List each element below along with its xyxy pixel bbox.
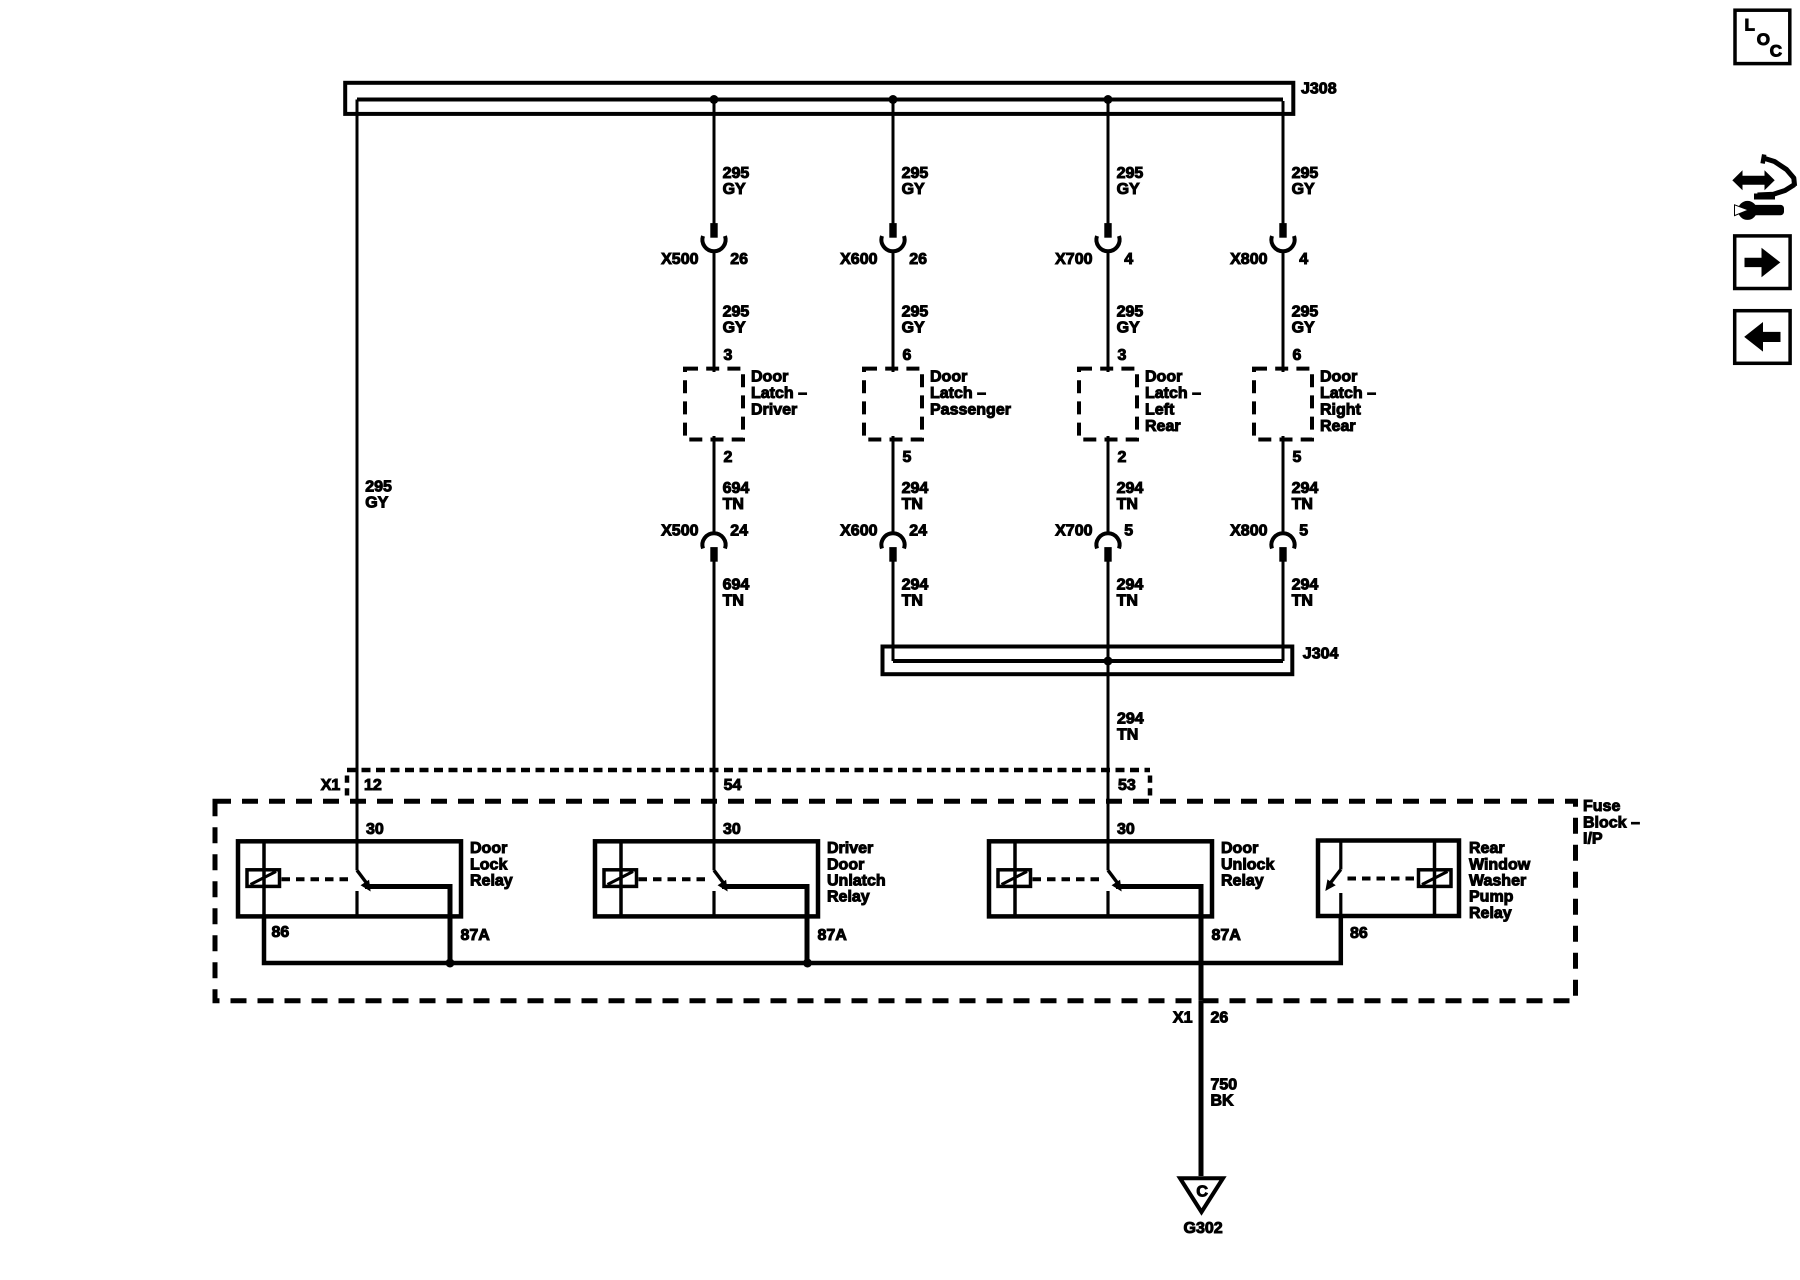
- connector X1 dotted bracket: [347, 770, 1150, 798]
- pin 26 label (upper connector): [909, 251, 927, 268]
- pin 3 label (door latch top): [1118, 347, 1127, 364]
- pin 86 label (relay 1): [272, 924, 290, 941]
- relay coil (relay 4): [1419, 841, 1452, 917]
- door latch component box (Door Latch - Passenger): [864, 369, 922, 440]
- svg-text:694: 694: [723, 577, 750, 594]
- label J304: [1303, 645, 1339, 662]
- svg-text:295: 295: [723, 304, 750, 321]
- door latch component box (Door Latch - Right Rear): [1254, 369, 1312, 440]
- pin 87A label (relay 3): [1212, 927, 1242, 944]
- relay coil (relay 3): [998, 841, 1031, 916]
- svg-text:BK: BK: [1211, 1092, 1235, 1109]
- label 295 GY (X500 lower): [723, 304, 750, 337]
- svg-text:GY: GY: [1292, 320, 1315, 337]
- label X800 (lower connector): [1230, 523, 1267, 540]
- label X600 (lower connector): [840, 523, 877, 540]
- svg-text:TN: TN: [1117, 593, 1138, 610]
- svg-text:5: 5: [1293, 449, 1302, 466]
- svg-text:Door: Door: [1221, 840, 1258, 857]
- pin 2 label (door latch bottom): [724, 449, 733, 466]
- label 750 BK: [1211, 1076, 1238, 1109]
- door latch component box (Door Latch - Driver): [685, 369, 743, 440]
- label X700 (upper connector): [1055, 251, 1092, 268]
- label G302: [1184, 1220, 1223, 1237]
- svg-text:Relay: Relay: [470, 873, 513, 890]
- svg-text:TN: TN: [1292, 593, 1313, 610]
- relay switch blade (relay 4): [1326, 841, 1341, 917]
- label X700 (lower connector): [1055, 523, 1092, 540]
- wire relay 2 pin 87A path: [722, 884, 807, 963]
- svg-text:Door: Door: [751, 369, 788, 386]
- wire 295 GY (J308 to X600 pin 26): [892, 101, 895, 224]
- pin 6 label (door latch top): [903, 347, 912, 364]
- svg-text:TN: TN: [1292, 496, 1313, 513]
- relay coil (relay 2): [604, 841, 637, 916]
- svg-text:GY: GY: [723, 320, 746, 337]
- svg-text:Driver: Driver: [751, 401, 797, 418]
- wire 294 TN (door latch pin 2 to X700 pin 5): [1107, 436, 1110, 534]
- relay coil (relay 1): [247, 841, 280, 916]
- svg-text:X500: X500: [661, 251, 698, 268]
- svg-text:G302: G302: [1184, 1220, 1223, 1237]
- relay coil linkage dotted (relay 3): [1033, 877, 1102, 881]
- label 294 TN (below X800 lower connector): [1292, 577, 1319, 610]
- in-line connector X500 pin 26: [702, 224, 725, 252]
- label relay 2 name: [827, 840, 886, 906]
- svg-text:X600: X600: [840, 523, 877, 540]
- svg-text:5: 5: [903, 449, 912, 466]
- wire relay 1 pin 87A path: [365, 884, 450, 963]
- svg-text:X800: X800: [1230, 251, 1267, 268]
- svg-text:295: 295: [902, 304, 929, 321]
- svg-text:4: 4: [1124, 251, 1133, 268]
- svg-text:I/P: I/P: [1583, 831, 1603, 848]
- wire 295 GY (X700 to door latch pin 3): [1107, 250, 1110, 372]
- label door latch name (X800 column): [1320, 369, 1376, 435]
- svg-text:Rear: Rear: [1320, 418, 1356, 435]
- svg-text:4: 4: [1299, 251, 1308, 268]
- svg-text:294: 294: [1117, 577, 1144, 594]
- svg-text:6: 6: [903, 347, 912, 364]
- label 295 GY (X700 upper): [1117, 165, 1144, 198]
- pin 30 label (relay 3): [1117, 821, 1135, 838]
- svg-text:295: 295: [1292, 165, 1319, 182]
- pin 30 label (relay 2): [723, 821, 741, 838]
- svg-text:30: 30: [366, 821, 384, 838]
- label 294 TN (above X800 lower connector): [1292, 480, 1319, 513]
- splice pack J308 bus bar: [345, 83, 1293, 114]
- in-line connector X600 pin 24: [881, 533, 904, 561]
- pin 53 label (X1): [1118, 777, 1136, 794]
- label relay 1 name: [470, 840, 513, 889]
- label door latch name (X700 column): [1145, 369, 1201, 435]
- svg-text:295: 295: [1117, 165, 1144, 182]
- svg-text:294: 294: [902, 577, 929, 594]
- svg-text:X700: X700: [1055, 523, 1092, 540]
- pin 4 label (upper connector): [1299, 251, 1308, 268]
- svg-text:Window: Window: [1469, 856, 1531, 873]
- svg-text:TN: TN: [902, 593, 923, 610]
- label 295 GY (X500 upper): [723, 165, 750, 198]
- junction ground bus / relay 1 pin 87A: [446, 959, 455, 968]
- label 295 GY (X600 upper): [902, 165, 929, 198]
- label relay 3 name: [1221, 840, 1274, 889]
- wire 294 TN (X700 pin 5 down): [1107, 561, 1110, 870]
- svg-text:86: 86: [1350, 925, 1368, 942]
- svg-text:294: 294: [1292, 480, 1319, 497]
- relay coil linkage dotted (relay 2): [639, 877, 708, 881]
- svg-text:Passenger: Passenger: [930, 401, 1011, 418]
- wire 750 BK (X1-26 to G302): [1199, 1001, 1204, 1176]
- svg-text:J308: J308: [1301, 81, 1337, 98]
- icon wrench (hotlink): [1735, 201, 1784, 219]
- wire 294 TN (X600 pin 24 down): [892, 561, 895, 661]
- pin 3 label (door latch top): [724, 347, 733, 364]
- svg-text:GY: GY: [1292, 181, 1315, 198]
- svg-text:Unlatch: Unlatch: [827, 873, 886, 890]
- junction J308 / X600 branch: [889, 95, 898, 104]
- pin 26 label (upper connector): [730, 251, 748, 268]
- svg-text:294: 294: [1292, 577, 1319, 594]
- svg-text:GY: GY: [723, 181, 746, 198]
- junction J308 / X700 branch: [1104, 95, 1113, 104]
- svg-text:30: 30: [723, 821, 741, 838]
- wire 294 TN (X800 pin 5 down): [1282, 561, 1285, 661]
- relay coil linkage dotted (relay 1): [282, 877, 351, 881]
- svg-text:X1: X1: [1173, 1009, 1193, 1026]
- wire 294 TN (door latch pin 5 to X800 pin 5): [1282, 436, 1285, 534]
- svg-text:GY: GY: [365, 495, 388, 512]
- svg-text:294: 294: [902, 480, 929, 497]
- wire 295 GY (J308 to X800 pin 4): [1282, 101, 1285, 224]
- pin 26 label (X1 bottom): [1211, 1009, 1229, 1026]
- svg-text:12: 12: [364, 777, 382, 794]
- in-line connector X500 pin 24: [702, 533, 725, 561]
- svg-text:C: C: [1196, 1184, 1208, 1201]
- relay box (Driver Door Unlatch Relay): [595, 841, 818, 916]
- label 294 TN (below X700 lower connector): [1117, 577, 1144, 610]
- in-line connector X600 pin 26: [881, 224, 904, 252]
- svg-text:295: 295: [902, 165, 929, 182]
- svg-text:24: 24: [730, 523, 748, 540]
- svg-text:Door: Door: [1145, 369, 1182, 386]
- svg-text:TN: TN: [902, 496, 923, 513]
- label X500 (upper connector): [661, 251, 698, 268]
- svg-text:30: 30: [1117, 821, 1135, 838]
- pin 30 label (relay 1): [366, 821, 384, 838]
- in-line connector X800 pin 4: [1271, 224, 1294, 252]
- label 295 GY (X800 lower): [1292, 304, 1319, 337]
- svg-text:TN: TN: [1117, 727, 1138, 744]
- svg-text:26: 26: [909, 251, 927, 268]
- svg-text:X600: X600: [840, 251, 877, 268]
- svg-text:Relay: Relay: [1469, 905, 1512, 922]
- wire 295 GY (X500 to door latch pin 3): [713, 250, 716, 372]
- relay box (Rear Window Washer Pump Relay): [1318, 841, 1459, 917]
- in-line connector X700 pin 5: [1096, 533, 1119, 561]
- label 295 GY (X800 upper): [1292, 165, 1319, 198]
- label door latch name (X600 column): [930, 369, 1011, 419]
- label 294 TN (below J304): [1117, 711, 1144, 744]
- label 295 GY (left wire): [365, 479, 392, 512]
- wire 294 TN (door latch pin 5 to X600 pin 24): [892, 436, 895, 534]
- junction J308 / X500 branch: [710, 95, 719, 104]
- svg-text:Block –: Block –: [1583, 814, 1640, 831]
- label door latch name (X500 column): [751, 369, 807, 419]
- svg-text:TN: TN: [723, 496, 744, 513]
- splice pack J304 bus bar: [883, 647, 1293, 675]
- svg-text:54: 54: [724, 777, 742, 794]
- label 694 TN (below X500 lower connector): [723, 577, 750, 610]
- svg-text:TN: TN: [1117, 496, 1138, 513]
- wire 295 GY (X600 to door latch pin 6): [892, 250, 895, 372]
- svg-text:Driver: Driver: [827, 840, 873, 857]
- svg-text:Latch –: Latch –: [751, 385, 807, 402]
- svg-text:Door: Door: [1320, 369, 1357, 386]
- svg-text:GY: GY: [1117, 181, 1140, 198]
- ground symbol G302: [1180, 1178, 1223, 1212]
- svg-text:Relay: Relay: [827, 889, 870, 906]
- svg-text:Fuse: Fuse: [1583, 798, 1620, 815]
- svg-text:24: 24: [909, 523, 927, 540]
- wire 694 TN (door latch pin 2 to X500 pin 24): [713, 436, 716, 534]
- junction ground bus / relay 2 pin 87A: [803, 959, 812, 968]
- svg-text:Latch –: Latch –: [1320, 385, 1376, 402]
- svg-text:Lock: Lock: [470, 856, 507, 873]
- relay switch blade (relay 2): [714, 870, 727, 916]
- fuse block I/P dashed outline: [215, 801, 1576, 1001]
- label 294 TN (below X600 lower connector): [902, 577, 929, 610]
- svg-text:2: 2: [1118, 449, 1127, 466]
- svg-text:X500: X500: [661, 523, 698, 540]
- label X800 (upper connector): [1230, 251, 1267, 268]
- svg-text:O: O: [1757, 30, 1770, 49]
- svg-text:26: 26: [730, 251, 748, 268]
- label relay 4 name: [1469, 840, 1531, 922]
- svg-text:Rear: Rear: [1145, 418, 1181, 435]
- label J308: [1301, 81, 1337, 98]
- pin 5 label (door latch bottom): [1293, 449, 1302, 466]
- label X600 (upper connector): [840, 251, 877, 268]
- svg-text:87A: 87A: [1212, 927, 1242, 944]
- svg-text:Door: Door: [827, 856, 864, 873]
- relay switch blade (relay 3): [1108, 870, 1121, 916]
- pin 2 label (door latch bottom): [1118, 449, 1127, 466]
- svg-text:Rear: Rear: [1469, 840, 1505, 857]
- pin 87A label (relay 1): [461, 927, 491, 944]
- svg-text:2: 2: [724, 449, 733, 466]
- svg-text:Latch –: Latch –: [1145, 385, 1201, 402]
- svg-text:Relay: Relay: [1221, 873, 1264, 890]
- svg-text:GY: GY: [902, 320, 925, 337]
- svg-text:295: 295: [723, 165, 750, 182]
- relay box (Door Lock Relay): [238, 841, 461, 916]
- svg-text:GY: GY: [902, 181, 925, 198]
- label 295 GY (X700 lower): [1117, 304, 1144, 337]
- svg-text:Washer: Washer: [1469, 873, 1526, 890]
- relay coil linkage dotted (relay 4): [1348, 877, 1418, 881]
- label 295 GY (X600 lower): [902, 304, 929, 337]
- label 694 TN (above X500 lower connector): [723, 480, 750, 513]
- wire 295 GY (X800 to door latch pin 6): [1282, 250, 1285, 372]
- svg-text:5: 5: [1124, 523, 1133, 540]
- svg-text:6: 6: [1293, 347, 1302, 364]
- pin 86 label (relay 4): [1350, 925, 1368, 942]
- svg-text:J304: J304: [1303, 645, 1339, 662]
- svg-text:294: 294: [1117, 711, 1144, 728]
- svg-text:X800: X800: [1230, 523, 1267, 540]
- pin 4 label (upper connector): [1124, 251, 1133, 268]
- pin 6 label (door latch top): [1293, 347, 1302, 364]
- svg-text:C: C: [1770, 41, 1782, 60]
- svg-text:Latch –: Latch –: [930, 385, 986, 402]
- svg-text:26: 26: [1211, 1009, 1229, 1026]
- pin 5 label (door latch bottom): [903, 449, 912, 466]
- pin 54 label (X1): [724, 777, 742, 794]
- svg-text:GY: GY: [1117, 320, 1140, 337]
- wire 295 GY (J308 to X500 pin 26): [713, 101, 716, 224]
- svg-text:X700: X700: [1055, 251, 1092, 268]
- svg-text:L: L: [1745, 16, 1755, 35]
- svg-text:TN: TN: [723, 593, 744, 610]
- svg-text:Pump: Pump: [1469, 889, 1514, 906]
- label X500 (lower connector): [661, 523, 698, 540]
- svg-text:Left: Left: [1145, 401, 1175, 418]
- pin 24 label (lower connector): [909, 523, 927, 540]
- svg-text:87A: 87A: [818, 927, 848, 944]
- pin 5 label (lower connector): [1124, 523, 1133, 540]
- svg-text:694: 694: [723, 480, 750, 497]
- svg-text:295: 295: [365, 479, 392, 496]
- junction J304 / X700 wire: [1104, 657, 1113, 666]
- wire 694 TN (X500 pin 24 down): [713, 561, 716, 870]
- svg-text:295: 295: [1292, 304, 1319, 321]
- svg-text:X1: X1: [321, 777, 341, 794]
- label X1 (fuse block bottom): [1173, 1009, 1193, 1026]
- icon navigation arrows (hotlink): [1733, 155, 1795, 197]
- wire relay 3 pin 87A path: [1116, 884, 1201, 1001]
- label 294 TN (above X700 lower connector): [1117, 480, 1144, 513]
- door latch component box (Door Latch - Left Rear): [1079, 369, 1137, 440]
- label 294 TN (above X600 lower connector): [902, 480, 929, 513]
- relay box (Door Unlock Relay): [989, 841, 1212, 916]
- wire ground bus (relay 1 pin 86 to relay 4 pin 86): [264, 915, 1341, 963]
- svg-text:295: 295: [1117, 304, 1144, 321]
- in-line connector X700 pin 4: [1096, 224, 1119, 252]
- relay switch blade (relay 1): [357, 870, 370, 916]
- svg-text:Door: Door: [470, 840, 507, 857]
- pin 24 label (lower connector): [730, 523, 748, 540]
- svg-text:53: 53: [1118, 777, 1136, 794]
- svg-text:Unlock: Unlock: [1221, 856, 1274, 873]
- svg-text:Right: Right: [1320, 401, 1362, 418]
- svg-text:87A: 87A: [461, 927, 491, 944]
- label Fuse Block - I/P: [1583, 798, 1640, 848]
- svg-text:Door: Door: [930, 369, 967, 386]
- svg-text:750: 750: [1211, 1076, 1238, 1093]
- in-line connector X800 pin 5: [1271, 533, 1294, 561]
- svg-text:86: 86: [272, 924, 290, 941]
- wire 295 GY (J308 to X700 pin 4): [1107, 101, 1110, 224]
- icon previous page (left arrow box): [1735, 311, 1790, 364]
- pin 5 label (lower connector): [1299, 523, 1308, 540]
- icon LOC box (top right): [1735, 10, 1790, 63]
- pin 87A label (relay 2): [818, 927, 848, 944]
- svg-text:5: 5: [1299, 523, 1308, 540]
- svg-text:3: 3: [724, 347, 733, 364]
- icon next page (right arrow box): [1735, 236, 1790, 289]
- label X1 (fuse block top): [321, 777, 341, 794]
- pin 12 label (X1): [364, 777, 382, 794]
- svg-text:3: 3: [1118, 347, 1127, 364]
- svg-text:294: 294: [1117, 480, 1144, 497]
- wire 295 GY (J308 left end down to fuse block pin 12): [356, 100, 359, 871]
